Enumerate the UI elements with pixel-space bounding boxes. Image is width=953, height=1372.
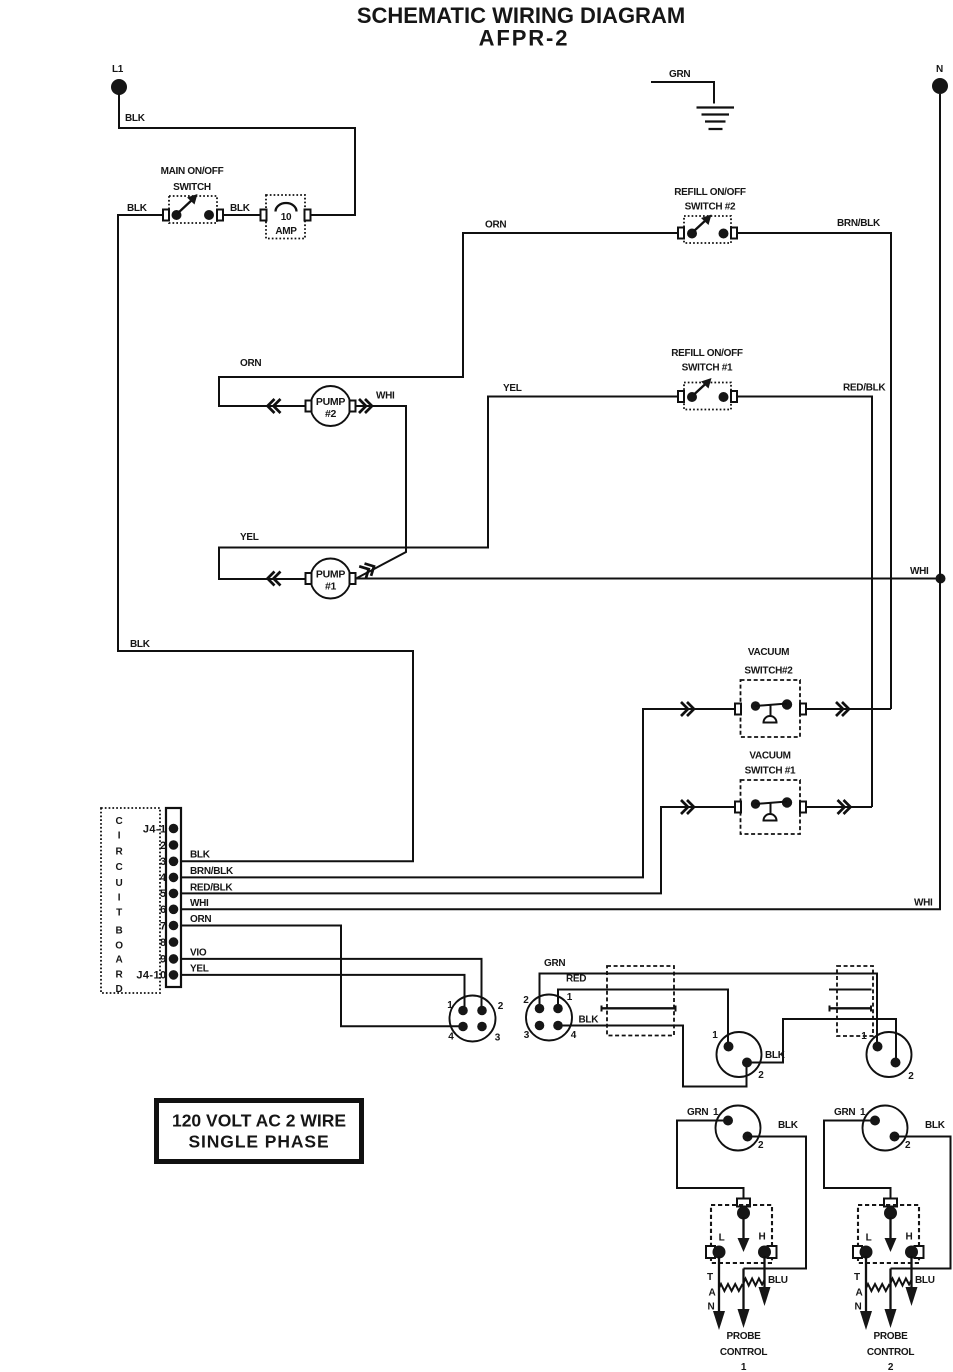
svg-text:PUMP: PUMP [316,396,345,408]
svg-text:BLK: BLK [230,203,251,214]
svg-text:6: 6 [160,904,167,916]
svg-text:N: N [708,1302,715,1313]
svg-text:L: L [719,1233,725,1244]
svg-text:9: 9 [160,954,167,966]
svg-text:RED/BLK: RED/BLK [843,383,886,394]
svg-text:R: R [116,970,124,981]
svg-text:2: 2 [888,1362,894,1372]
svg-text:2: 2 [523,995,529,1006]
svg-text:D: D [116,984,123,995]
svg-text:U: U [116,878,123,889]
svg-text:BLK: BLK [125,113,146,124]
svg-text:AMP: AMP [275,226,297,237]
svg-text:4: 4 [448,1032,454,1043]
svg-text:1: 1 [712,1030,718,1041]
svg-text:2: 2 [758,1140,764,1151]
svg-text:5: 5 [160,888,167,900]
svg-text:BRN/BLK: BRN/BLK [837,218,881,229]
svg-text:10: 10 [281,212,292,223]
svg-text:WHI: WHI [190,898,209,909]
svg-text:ORN: ORN [240,358,261,369]
svg-text:SINGLE PHASE: SINGLE PHASE [188,1132,329,1152]
svg-text:RED/BLK: RED/BLK [190,882,233,893]
svg-text:REFILL ON/OFF: REFILL ON/OFF [671,348,743,359]
svg-text:WHI: WHI [376,391,395,402]
svg-text:N: N [936,64,943,75]
svg-text:SCHEMATIC WIRING DIAGRAM: SCHEMATIC WIRING DIAGRAM [357,3,685,28]
svg-text:PROBE: PROBE [726,1331,761,1342]
svg-text:SWITCH #2: SWITCH #2 [685,202,736,213]
svg-text:J4-1: J4-1 [143,824,167,836]
svg-text:VACUUM: VACUUM [748,647,789,658]
svg-text:#2: #2 [325,408,337,420]
svg-text:3: 3 [524,1030,530,1041]
svg-text:R: R [116,847,124,858]
svg-text:4: 4 [160,872,167,884]
svg-text:I: I [118,831,121,842]
svg-text:WHI: WHI [914,898,933,909]
svg-text:A: A [709,1288,716,1299]
svg-text:3: 3 [160,856,167,868]
svg-text:SWITCH#2: SWITCH#2 [744,666,793,677]
svg-text:2: 2 [160,840,167,852]
svg-text:120 VOLT AC 2 WIRE: 120 VOLT AC 2 WIRE [172,1111,346,1131]
svg-text:B: B [116,926,123,937]
svg-text:ORN: ORN [485,220,506,231]
svg-text:T: T [707,1272,713,1283]
svg-text:RED: RED [566,974,586,985]
svg-text:AFPR-2: AFPR-2 [479,26,570,51]
svg-text:GRN: GRN [669,69,690,80]
svg-text:VACUUM: VACUUM [749,751,790,762]
svg-text:SWITCH: SWITCH [173,182,211,193]
svg-text:8: 8 [160,937,167,949]
svg-text:BLK: BLK [127,203,148,214]
svg-text:C: C [116,816,123,827]
svg-text:GRN: GRN [687,1107,708,1118]
svg-text:C: C [116,862,123,873]
svg-text:H: H [759,1232,766,1243]
svg-text:J4-10: J4-10 [136,970,166,982]
svg-text:ORN: ORN [190,914,211,925]
svg-text:7: 7 [160,920,167,932]
svg-text:VIO: VIO [190,948,207,959]
svg-text:2: 2 [758,1070,764,1081]
svg-text:2: 2 [908,1071,914,1082]
svg-text:2: 2 [498,1001,504,1012]
svg-text:L1: L1 [112,64,124,75]
svg-text:REFILL ON/OFF: REFILL ON/OFF [674,187,746,198]
svg-text:A: A [116,955,123,966]
svg-text:SWITCH #1: SWITCH #1 [682,363,733,374]
svg-text:I: I [118,893,121,904]
svg-text:1: 1 [447,1000,453,1011]
svg-text:BRN/BLK: BRN/BLK [190,866,234,877]
svg-text:1: 1 [741,1362,747,1372]
svg-text:PUMP: PUMP [316,569,345,581]
svg-text:1: 1 [861,1031,867,1042]
svg-text:YEL: YEL [190,964,209,975]
svg-text:WHI: WHI [910,566,929,577]
svg-text:4: 4 [571,1030,577,1041]
svg-text:#1: #1 [325,581,337,593]
svg-text:BLK: BLK [190,850,211,861]
svg-text:SWITCH #1: SWITCH #1 [745,766,796,777]
svg-text:GRN: GRN [544,958,565,969]
svg-text:BLK: BLK [130,639,151,650]
svg-text:BLK: BLK [778,1120,799,1131]
svg-text:YEL: YEL [240,532,259,543]
svg-text:O: O [115,941,123,952]
svg-text:BLU: BLU [768,1275,788,1286]
svg-text:3: 3 [495,1033,501,1044]
svg-text:MAIN ON/OFF: MAIN ON/OFF [161,166,224,177]
svg-text:BLK: BLK [579,1015,600,1026]
svg-text:BLK: BLK [765,1050,786,1061]
svg-text:CONTROL: CONTROL [720,1347,768,1358]
svg-text:T: T [116,908,122,919]
svg-text:1: 1 [567,992,573,1003]
svg-text:YEL: YEL [503,383,522,394]
